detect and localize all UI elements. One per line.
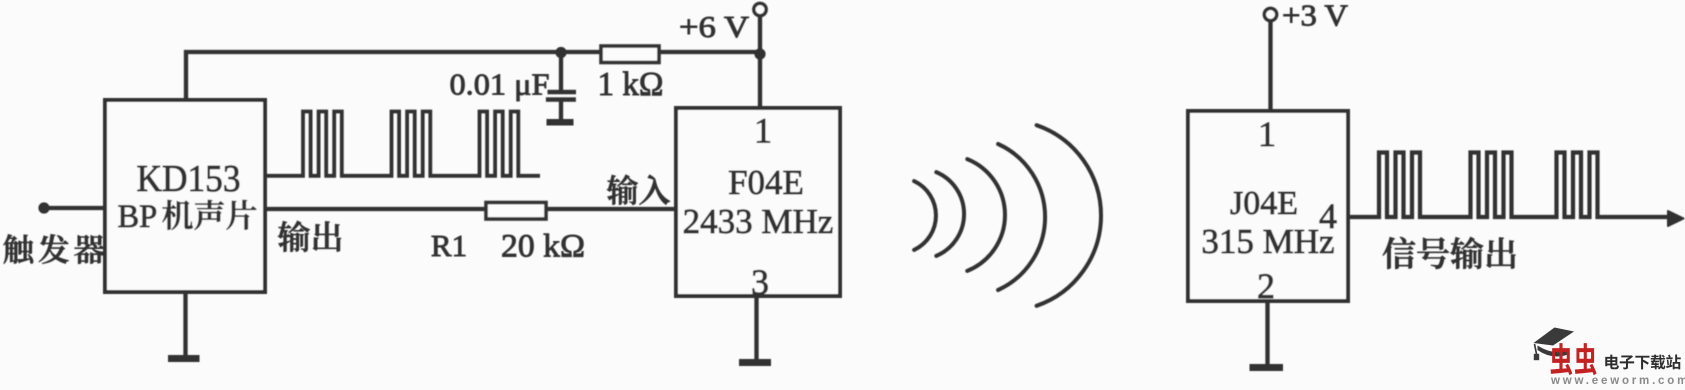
svg-text:2433 MHz: 2433 MHz xyxy=(683,202,834,241)
svg-text:1 kΩ: 1 kΩ xyxy=(598,66,664,103)
svg-text:3: 3 xyxy=(751,262,769,302)
svg-text:0.01 μF: 0.01 μF xyxy=(450,67,550,102)
svg-text:R1: R1 xyxy=(431,228,467,263)
svg-text:www.eeworm.com: www.eeworm.com xyxy=(1550,375,1685,385)
svg-text:+3 V: +3 V xyxy=(1282,0,1349,33)
svg-text:315 MHz: 315 MHz xyxy=(1201,222,1334,261)
svg-text:1: 1 xyxy=(754,111,772,151)
svg-text:BP: BP xyxy=(118,199,158,235)
svg-text:KD153: KD153 xyxy=(137,158,241,200)
svg-text:4: 4 xyxy=(1319,196,1337,236)
svg-text:+6 V: +6 V xyxy=(679,9,750,44)
svg-text:J04E: J04E xyxy=(1230,185,1298,222)
svg-text:20 kΩ: 20 kΩ xyxy=(501,229,585,265)
svg-text:F04E: F04E xyxy=(728,163,804,202)
svg-text:1: 1 xyxy=(1258,114,1276,154)
svg-text:2: 2 xyxy=(1257,266,1275,306)
